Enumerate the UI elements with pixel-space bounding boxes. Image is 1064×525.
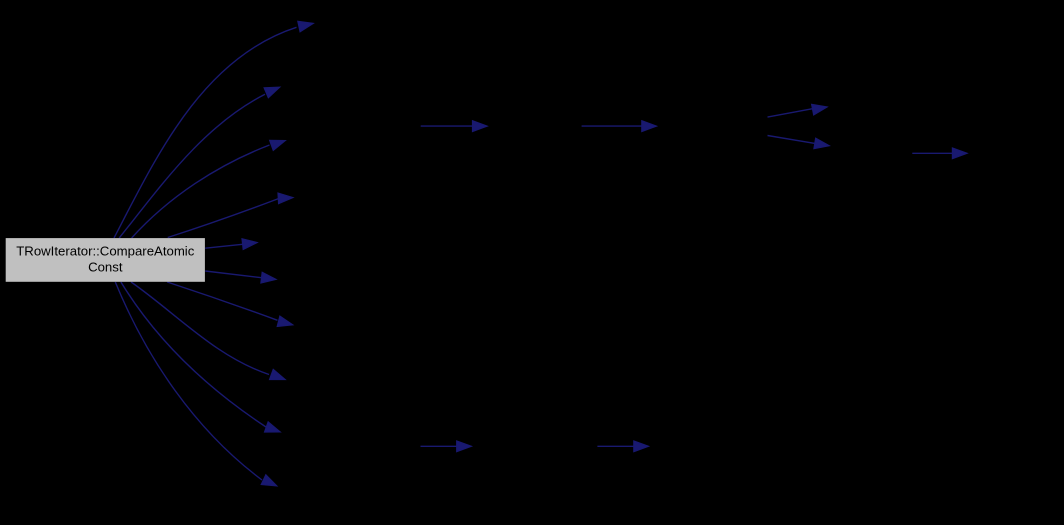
edge C — [768, 104, 828, 117]
edge 9 — [121, 282, 281, 432]
edge 3 — [132, 140, 286, 238]
edge D — [768, 136, 830, 149]
edge A — [421, 121, 488, 132]
edge F — [421, 441, 472, 452]
edge G — [597, 441, 648, 452]
edge 4 — [168, 193, 294, 238]
edge 6 — [205, 271, 276, 283]
edge 5 — [205, 239, 257, 250]
edge 10 — [115, 282, 277, 486]
edge 1 — [114, 21, 314, 238]
edge B — [582, 121, 657, 132]
edge 2 — [119, 87, 280, 238]
edge 7 — [167, 282, 293, 327]
svg-text:Const: Const — [88, 260, 123, 275]
edge E — [912, 148, 967, 159]
edge 8 — [131, 282, 285, 380]
svg-text:TRowIterator::CompareAtomic: TRowIterator::CompareAtomic — [16, 243, 194, 258]
node TRowIterator::CompareAtomicConst — [6, 238, 205, 282]
